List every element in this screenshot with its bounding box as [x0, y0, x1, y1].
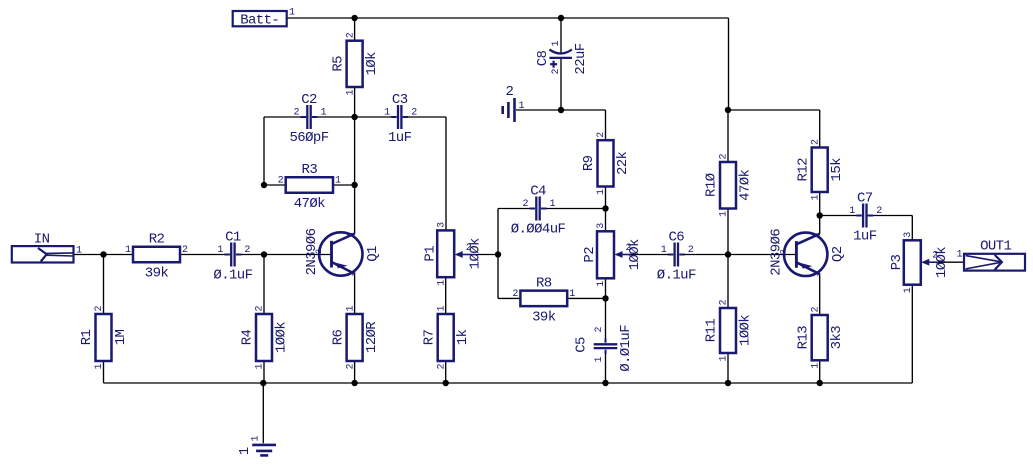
junction ground rail R7 [443, 380, 449, 386]
svg-text:2: 2 [314, 249, 324, 254]
svg-text:2: 2 [594, 326, 605, 332]
wire ground rail [104, 382, 913, 384]
wire R2 pin2 to C1 pin1 [180, 254, 230, 256]
svg-text:2: 2 [278, 176, 284, 187]
wire R9 pin2 stub [605, 110, 607, 140]
svg-text:Batt-: Batt- [240, 12, 279, 28]
resistor R5 10k [330, 32, 380, 95]
resistor R11 100k [704, 299, 754, 361]
svg-text:1: 1 [384, 108, 390, 119]
junction R12 C7 Q2 collector [817, 212, 823, 218]
connector OUT1 [964, 254, 1025, 271]
wire node down to Q1 collector [354, 185, 356, 234]
junction R8 P2 C5 [602, 295, 608, 301]
svg-text:C3: C3 [392, 92, 408, 108]
svg-text:2: 2 [293, 108, 299, 119]
svg-text:15k: 15k [829, 158, 845, 182]
junction C4 R9 P2 [602, 205, 608, 211]
wire ground2 to node [516, 109, 561, 111]
svg-text:1: 1 [594, 356, 605, 362]
svg-text:2: 2 [596, 132, 607, 138]
wire C3 pin2 to elbow [403, 116, 446, 118]
wire elbow down to P3 pin3 [911, 216, 913, 241]
svg-text:R9: R9 [581, 155, 597, 171]
wire P3 pin1 to ground rail [911, 285, 913, 383]
potentiometer P3 100k [889, 232, 950, 293]
svg-text:Q2: Q2 [830, 246, 846, 262]
svg-text:1: 1 [436, 280, 447, 286]
wire node down to R11 pin2 [727, 255, 729, 309]
resistor R2 39k [125, 232, 188, 282]
svg-text:OUT1: OUT1 [980, 238, 1011, 254]
svg-text:R7: R7 [421, 330, 437, 346]
svg-text:Ø.1uF: Ø.1uF [213, 268, 252, 284]
svg-text:2: 2 [94, 305, 105, 311]
wire node to C3 pin1 [355, 116, 397, 118]
label OUT1 [980, 238, 1011, 254]
svg-text:R8: R8 [536, 275, 552, 291]
junction ground rail R4 [260, 380, 266, 386]
svg-text:1: 1 [810, 194, 821, 200]
resistor R12 15k [795, 139, 845, 201]
capacitor C1 0.1uF [213, 230, 252, 284]
svg-text:P1: P1 [422, 246, 438, 262]
svg-text:2: 2 [932, 251, 938, 262]
wire node to R9 elbow [561, 109, 606, 111]
svg-text:2: 2 [719, 299, 730, 305]
junction rail R5 [351, 15, 357, 21]
capacitor C4 0.004uF [511, 184, 566, 238]
wire R5 pin1 to node [354, 87, 356, 117]
wire Q2 emitter to R13 pin2 [819, 275, 821, 316]
svg-text:2: 2 [876, 206, 882, 217]
svg-text:Q1: Q1 [365, 246, 381, 262]
svg-text:C1: C1 [225, 230, 241, 246]
svg-text:2: 2 [551, 68, 562, 74]
junction ground rail R13 [817, 380, 823, 386]
resistor R13 3k3 [795, 306, 845, 368]
wire elbow to R8 pin2 [498, 297, 520, 299]
wire node to R12 elbow [728, 109, 820, 111]
wire C4 pin1 to node [542, 208, 606, 210]
wire node to C7 pin1 [820, 215, 861, 217]
svg-text:12ØR: 12ØR [364, 321, 380, 353]
wire node to R2 pin1 [104, 254, 134, 256]
svg-text:R4: R4 [240, 330, 256, 346]
wire R11 pin1 to ground rail [727, 353, 729, 383]
resistor R4 100k [240, 305, 290, 369]
svg-text:R6: R6 [330, 330, 346, 346]
wire node down to R3 node [354, 117, 356, 185]
svg-text:C2: C2 [301, 92, 317, 108]
svg-text:2: 2 [688, 245, 694, 256]
wire P3 wiper to OUT1 pin1 [937, 261, 964, 263]
svg-text:1: 1 [251, 435, 262, 441]
svg-text:R1: R1 [79, 330, 95, 346]
svg-text:1ØØk: 1ØØk [738, 315, 754, 346]
svg-text:1uF: 1uF [853, 229, 877, 245]
svg-text:R3: R3 [302, 162, 318, 178]
junction C1 R4 Q1 base [261, 251, 267, 257]
wire node to Q1 base [264, 254, 332, 256]
svg-text:2: 2 [436, 363, 447, 369]
junction ground rail R11 [725, 380, 731, 386]
junction rail C8 [558, 15, 564, 21]
transistor Q1 2N3906 [304, 228, 381, 276]
wire elbow down to P1 pin3 [445, 117, 447, 230]
svg-text:2: 2 [779, 249, 789, 254]
wire P1 wiper to node [471, 254, 498, 256]
svg-text:22uF: 22uF [573, 43, 589, 74]
svg-text:1: 1 [719, 355, 730, 361]
junction Batt node C8 ground2 R9 [558, 107, 564, 113]
wire C1 pin2 to node [236, 254, 264, 256]
svg-text:R2: R2 [149, 232, 165, 248]
label IN [34, 232, 50, 248]
pin 1 of ground 1 [251, 435, 262, 441]
svg-text:56ØpF: 56ØpF [289, 130, 328, 146]
svg-text:1: 1 [956, 250, 962, 261]
junction C2 R3 left [261, 182, 267, 188]
wire C6 pin2 to node [680, 254, 728, 256]
junction C6 R10 R11 Q2 base [725, 251, 731, 257]
wire R4 pin1 to ground rail [263, 361, 265, 383]
svg-text:1: 1 [569, 289, 575, 300]
capacitor C2 560pF [289, 92, 328, 146]
svg-text:2: 2 [626, 243, 632, 254]
svg-text:R11: R11 [704, 319, 720, 343]
connector IN [12, 246, 74, 262]
wire node down to R10 pin2 [727, 110, 729, 162]
wire C5 pin1 to ground rail [605, 354, 607, 383]
svg-text:2: 2 [411, 108, 417, 119]
svg-text:1k: 1k [455, 330, 471, 346]
svg-text:1: 1 [255, 363, 266, 369]
svg-text:P2: P2 [582, 247, 598, 263]
svg-text:C8: C8 [535, 51, 551, 67]
svg-text:2: 2 [512, 289, 518, 300]
svg-text:Ø.ØØ4uF: Ø.ØØ4uF [511, 222, 566, 238]
wire R7 pin2 to ground rail [445, 361, 447, 383]
svg-text:3: 3 [436, 222, 447, 228]
svg-text:2: 2 [719, 153, 730, 159]
svg-text:1: 1 [810, 363, 821, 369]
svg-text:22k: 22k [615, 151, 631, 175]
svg-text:IN: IN [34, 232, 50, 248]
wire P2 wiper to C6 pin1 [631, 254, 673, 256]
resistor R8 39k [512, 275, 575, 325]
svg-text:3k3: 3k3 [829, 326, 845, 350]
svg-text:39k: 39k [532, 309, 556, 325]
wire node to Q2 base [728, 254, 797, 256]
resistor R3 470k [278, 162, 341, 212]
svg-text:R1Ø: R1Ø [704, 173, 720, 197]
capacitor C6 0.1uF [657, 230, 696, 284]
svg-text:2: 2 [345, 363, 356, 369]
junction P1 wiper C4 R8 [495, 251, 501, 257]
junction rail R10 R12 [725, 107, 731, 113]
svg-text:2: 2 [244, 245, 250, 256]
svg-text:1: 1 [596, 281, 607, 287]
svg-text:2: 2 [466, 243, 472, 254]
svg-text:1: 1 [596, 189, 607, 195]
svg-text:1: 1 [903, 287, 914, 293]
svg-text:1: 1 [125, 245, 131, 256]
wire R8 pin1 to node [567, 297, 605, 299]
pin 1 of OUT1 [956, 250, 962, 261]
svg-text:C7: C7 [857, 191, 873, 207]
potentiometer P2 100k [582, 223, 643, 287]
pin 1 of ground 2 [519, 101, 525, 112]
capacitor C8 22uF polarized [535, 40, 589, 74]
svg-text:2: 2 [182, 245, 188, 256]
svg-text:1: 1 [217, 245, 223, 256]
svg-text:2: 2 [345, 32, 356, 38]
wire IN pin1 to node [74, 254, 104, 256]
svg-text:C5: C5 [574, 337, 590, 353]
svg-text:R12: R12 [795, 158, 811, 182]
svg-text:P3: P3 [889, 255, 905, 271]
resistor R7 1k [421, 305, 471, 369]
wire R9 pin1 to node [605, 187, 607, 209]
svg-text:1: 1 [661, 245, 667, 256]
wire P1 pin1 to R7 pin1 [445, 277, 447, 314]
svg-text:1: 1 [849, 206, 855, 217]
label 2 of ground 2 [505, 84, 513, 100]
svg-text:1ØØk: 1ØØk [274, 322, 290, 353]
resistor R6 120R [330, 305, 380, 369]
svg-text:2: 2 [522, 199, 528, 210]
capacitor C3 1uF [384, 92, 417, 146]
svg-text:1: 1 [346, 271, 356, 276]
junction IN R1 R2 [100, 251, 106, 257]
label 1 of ground 1 [237, 447, 253, 455]
svg-text:1: 1 [335, 176, 341, 187]
wire R12 pin2 stub [819, 110, 821, 148]
svg-text:1M: 1M [113, 330, 129, 346]
svg-text:2: 2 [810, 306, 821, 312]
svg-text:3: 3 [346, 232, 356, 237]
svg-text:1: 1 [76, 246, 82, 257]
wire node down to R1 pin2 [103, 255, 105, 315]
wire C2 pin1 to node [314, 116, 355, 118]
wire top rail Batt- to corner [287, 17, 729, 19]
wire R12 pin1 to Q2 collector [819, 192, 821, 234]
wire Q1 emitter to R6 pin1 [354, 274, 356, 314]
capacitor C5 0.01uF [574, 325, 634, 372]
svg-text:1: 1 [321, 108, 327, 119]
wire C8 pin2 to node [560, 59, 562, 111]
resistor R10 470k [704, 153, 754, 217]
svg-text:1: 1 [436, 305, 447, 311]
wire R3 pin1 to node [333, 184, 355, 186]
svg-text:1Øk: 1Øk [364, 52, 380, 76]
capacitor C7 1uF [849, 191, 882, 245]
svg-text:Ø.1uF: Ø.1uF [657, 268, 696, 284]
wire ground1 stub [262, 383, 264, 443]
svg-text:1: 1 [345, 305, 356, 311]
svg-text:C6: C6 [668, 230, 684, 246]
svg-text:1: 1 [289, 8, 295, 19]
wire P2 pin1 to C5 pin2 [605, 278, 607, 338]
resistor R9 22k [581, 132, 631, 195]
svg-text:2: 2 [255, 305, 266, 311]
svg-text:3: 3 [596, 223, 607, 229]
junction R3 R5 Q1 collector [351, 182, 357, 188]
svg-text:1: 1 [94, 363, 105, 369]
svg-text:1: 1 [551, 40, 562, 46]
wire node to P2 pin3 [605, 209, 607, 232]
svg-text:3: 3 [903, 232, 914, 238]
resistor R1 1M [79, 305, 129, 369]
svg-text:47Øk: 47Øk [738, 169, 754, 200]
ground 1 (down-pointing) [252, 445, 276, 456]
wire R10 pin1 to node [727, 209, 729, 255]
svg-text:47Øk: 47Øk [294, 196, 325, 212]
svg-text:R5: R5 [330, 56, 346, 72]
connector Batt- supply flag [233, 8, 295, 29]
wire R13 pin1 to ground rail [819, 360, 821, 383]
wire C7 pin2 to elbow [867, 215, 912, 217]
svg-text:3: 3 [811, 233, 821, 238]
svg-text:1: 1 [550, 199, 556, 210]
svg-text:2: 2 [810, 139, 821, 145]
wire R5 pin2 stub [354, 18, 356, 41]
ground 2 (left-pointing) [503, 98, 515, 122]
svg-text:39k: 39k [145, 266, 169, 282]
pin 1 of IN [76, 246, 82, 257]
wire C2 pin2 elbow [264, 116, 307, 118]
svg-text:1: 1 [345, 89, 356, 95]
svg-text:1: 1 [237, 447, 253, 455]
wire elbow to C4 pin2 [498, 208, 535, 210]
junction C2 C3 R5 [351, 114, 357, 120]
svg-text:2: 2 [505, 84, 513, 100]
svg-text:1: 1 [811, 272, 821, 277]
wire C8 pin1 stub [560, 18, 562, 53]
wire top rail right corner down [728, 18, 730, 110]
wire R1 pin1 to ground rail [103, 361, 105, 383]
potentiometer P1 100k [422, 222, 483, 286]
svg-text:Ø.Ø1uF: Ø.Ø1uF [618, 325, 634, 372]
junction ground rail C5 [602, 380, 608, 386]
svg-text:C4: C4 [530, 184, 546, 200]
wire R6 pin2 to ground rail [354, 361, 356, 383]
svg-text:1: 1 [519, 101, 525, 112]
svg-text:1uF: 1uF [388, 130, 412, 146]
svg-text:1: 1 [719, 211, 730, 217]
wire C2 left vertical [263, 117, 265, 185]
svg-text:R13: R13 [795, 326, 811, 350]
transistor Q2 2N3906 [769, 229, 846, 277]
junction ground rail R6 [351, 380, 357, 386]
wire node down to R4 pin2 [263, 255, 265, 315]
wire R3 pin2 stub [264, 184, 286, 186]
wire C4 R8 left vertical [497, 209, 499, 299]
